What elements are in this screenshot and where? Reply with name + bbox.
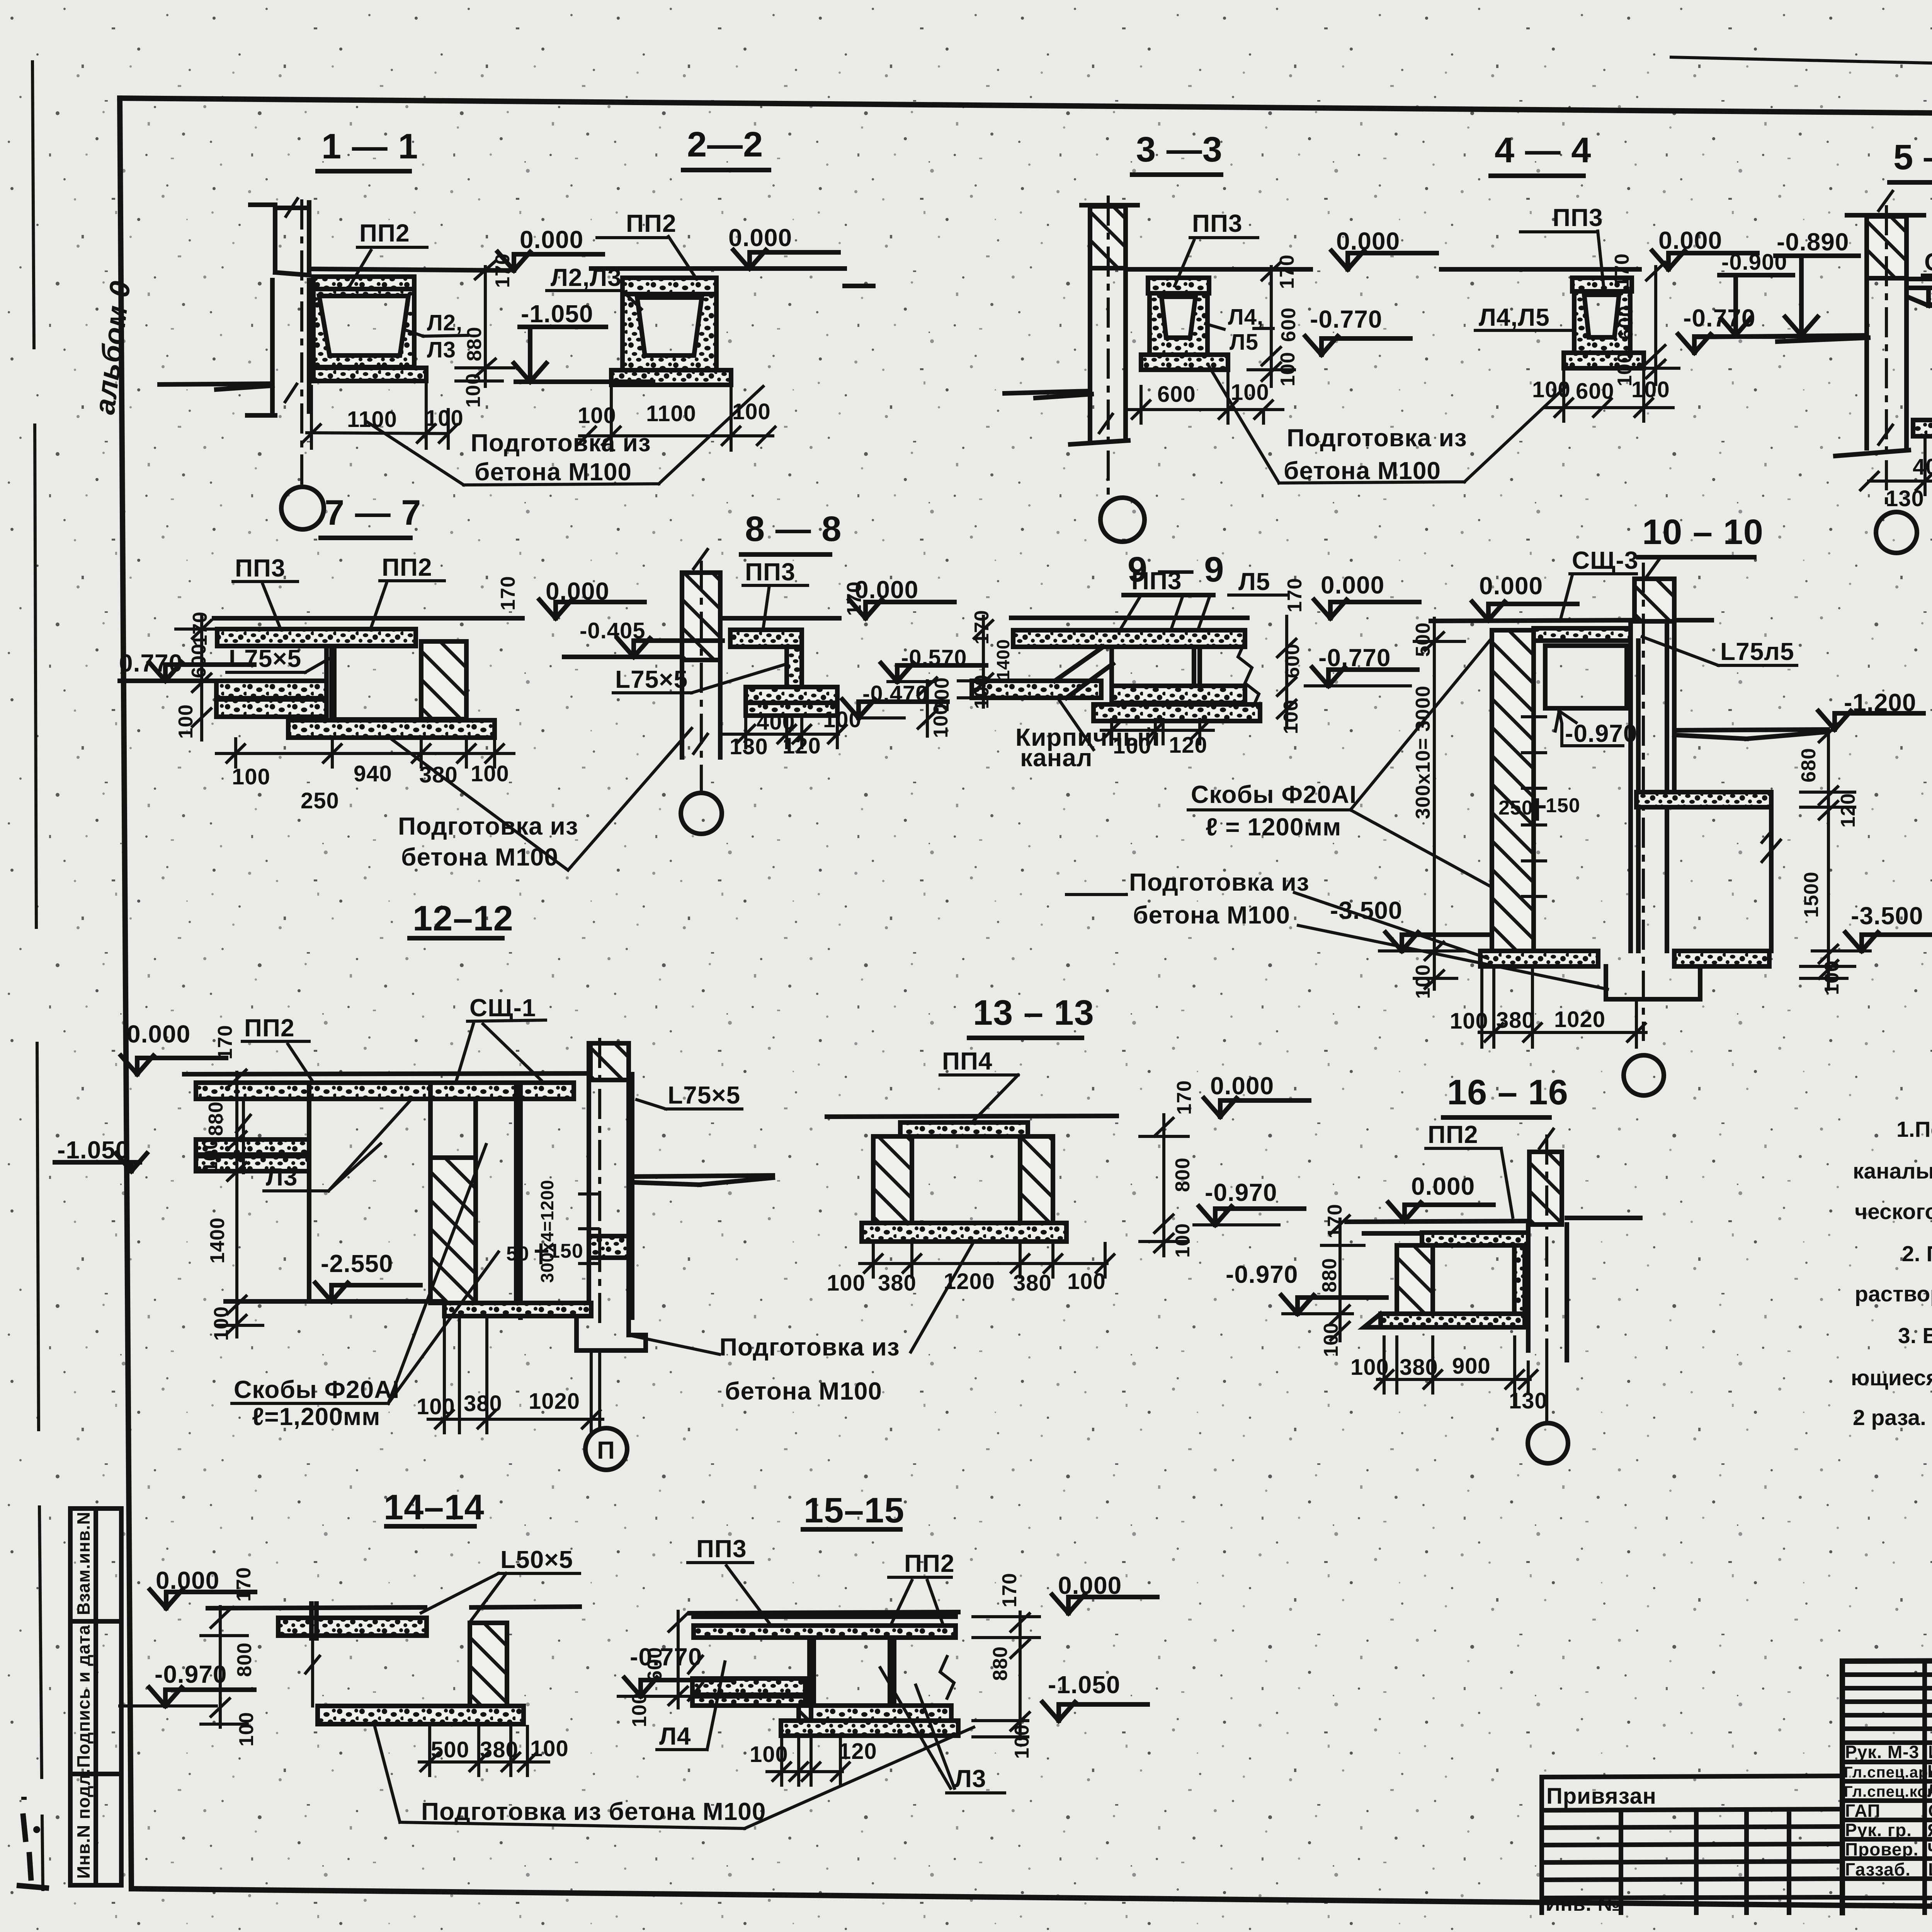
section 15-15 label L4 [657,1662,725,1750]
section 5-5 title underline [1889,180,1932,185]
section 12-12 axis to P circle [598,1350,601,1428]
section 10-10 right wall break [1762,832,1781,862]
svg-text:15–15: 15–15 [804,1491,905,1530]
svg-text:170: 170 [233,1567,255,1602]
svg-text:880: 880 [205,1101,227,1136]
section 4-4 bottom dim line [1546,370,1673,421]
svg-text:-0.770: -0.770 [1310,305,1382,333]
svg-text:100: 100 [530,1736,569,1761]
svg-text:Инв. №: Инв. № [1546,1893,1621,1915]
section 13-13 pier left hatched [873,1136,912,1223]
section 15-15 label PP3 [688,1535,774,1629]
svg-text:100: 100 [471,761,509,786]
section 16-16 cover slab [1422,1233,1528,1245]
section 15-15 label L3 [880,1668,1005,1793]
svg-text:380: 380 [464,1391,502,1416]
svg-text:Читхагадзе: Читхагадзе [1927,1839,1932,1859]
svg-text:Л3: Л3 [266,1163,298,1191]
svg-text:Скобы Ф20АІ: Скобы Ф20АІ [234,1376,400,1403]
bottom left corner marks [19,1816,46,1888]
section 16-16 label PP2 [1426,1121,1513,1217]
section 16-16 cover slab line [1364,1231,1422,1236]
svg-text:1100: 1100 [347,407,397,432]
section 16-16 bottom dim line [1375,1337,1537,1406]
sheet frame left border [120,98,131,1889]
svg-text:100: 100 [1172,1223,1194,1258]
svg-text:120: 120 [1169,733,1207,758]
section 7-7 hatched pier [421,641,466,719]
svg-text:170: 170 [214,1025,236,1060]
svg-text:Подготовка из: Подготовка из [471,429,651,457]
title block name rows [1842,1762,1932,1898]
section 16-16 axis to circle [1545,1352,1548,1423]
svg-text:100: 100 [1412,964,1434,999]
svg-text:Л4,Л5: Л4,Л5 [1479,303,1550,331]
section 7-7 channel floor slab upper [216,681,327,698]
section 10-10 upper wall break [1647,557,1661,577]
section 8-8 wall break top [694,549,707,569]
section 8-8 level mark 0.000 [849,576,954,618]
section 14-14 label L50x5 [421,1546,580,1621]
svg-text:1200: 1200 [944,1269,995,1294]
section 13-13 bedding slab [862,1223,1066,1242]
section 1-1 channel trough L2,L3 [313,289,414,367]
section 12-12 level mark -2.550 [315,1250,420,1301]
svg-text:8 — 8: 8 — 8 [745,509,842,549]
section 7-7 channel floor slab lower [216,699,327,717]
section 14-14 left break line [306,1638,320,1706]
section 12-12 wall lines right [476,1083,520,1318]
section 14-14 slab left lines [311,1604,316,1638]
section 9-9 cover slab long [1013,630,1245,647]
svg-text:0.000: 0.000 [127,1020,190,1048]
section 14-14 level mark 0.000 [150,1566,255,1608]
svg-text:3 —3: 3 —3 [1136,130,1223,169]
svg-text:ПП3: ПП3 [1192,209,1243,237]
svg-text:-0.890: -0.890 [1777,228,1849,256]
section 3-3 bottom dim line [1126,372,1283,423]
svg-text:ПП3: ПП3 [1553,204,1603,231]
section 10-10 wall tick marks [1522,717,1546,896]
section 16-16 wall lines below [1528,1152,1567,1360]
svg-text:П: П [597,1436,615,1464]
svg-text:ПП3: ПП3 [235,554,286,582]
section 9-9 cavity lines [1112,647,1200,686]
svg-text:Подготовка из бетона М100: Подготовка из бетона М100 [421,1798,766,1825]
section 10-10 title underline [1638,555,1754,560]
svg-text:Газзаб.: Газзаб. [1845,1859,1911,1879]
section 12-12 trough cavity lines [309,1099,430,1301]
svg-text:100: 100 [462,373,485,408]
svg-text:канал: канал [1020,744,1093,772]
section 8-8 cut circle [681,793,722,834]
section 10-10 label podgotovka [1066,868,1607,989]
svg-text:1020: 1020 [529,1389,580,1414]
section 7-7 cover slabs [217,629,416,646]
svg-text:-3.500: -3.500 [1330,896,1402,924]
section 12-12 channel slab lower [196,1156,309,1171]
scan edge line left [32,62,43,1889]
svg-text:Л5: Л5 [1238,568,1270,595]
section 14-14 left dim chain [201,1607,247,1727]
svg-text:800: 800 [233,1642,256,1677]
section 9-9 label PP3 [1121,567,1194,629]
section 15-15 label PP2 [889,1549,955,1629]
svg-text:Л3: Л3 [954,1765,986,1793]
section 13-13 label PP4 [940,1047,1018,1121]
section 8-8 slab post [787,647,802,687]
section 8-8 bottom dim line [723,717,846,748]
svg-text:380: 380 [1496,1008,1535,1033]
section 16-16 level mark -0.970 [1226,1260,1386,1314]
svg-text:ПП2: ПП2 [244,1014,295,1042]
svg-text:ПП2: ПП2 [904,1549,955,1577]
svg-text:Шсамч: Шсамч [1928,1859,1932,1879]
svg-text:170: 170 [1284,578,1306,612]
section 12-12 wall stipple block [589,1236,629,1258]
section 13-13 right dim chain [1140,1115,1188,1256]
title block signature columns [1925,1660,1932,1913]
section 15-15 bedding slab [781,1721,958,1736]
section 3-3 wall axis [1107,197,1110,495]
section 12-12 level line -2.550 [226,1299,444,1304]
svg-text:100: 100 [971,674,993,709]
section 7-7 title underline [321,536,410,540]
svg-text:1100: 1100 [646,401,696,426]
section 14-14 cover slab [278,1618,427,1636]
section 15-15 level mark -1.050 [973,1671,1148,1721]
svg-text:100: 100 [1011,1724,1033,1759]
svg-text:100: 100 [1631,377,1670,402]
section 13-13 level mark 0.000 [1204,1072,1309,1117]
section 10-10 bottom dim line [1479,968,1646,1047]
svg-text:250: 250 [1498,797,1533,819]
section 14-14 bedding slab [318,1706,524,1724]
svg-text:-0.970: -0.970 [1226,1260,1298,1288]
section 12-12 left break line [236,1099,250,1173]
svg-text:Подготовка из: Подготовка из [398,812,578,840]
section 10-10 channel floor slab [1636,792,1771,807]
section 15-15 hatch wedge [799,1706,811,1721]
section 12-12 cover slab [196,1083,574,1099]
section 7-7 floor line [214,616,522,621]
section 12-12 label L3 [264,1101,410,1191]
section 7-7 left dim chain [176,616,224,740]
section 5-5 floor line [1909,277,1932,281]
svg-text:600: 600 [644,1647,666,1682]
section 3-3 title underline [1132,172,1221,177]
svg-text:Саган: Саган [1928,1801,1932,1821]
section 15-15 title underline [803,1527,900,1532]
section 7-7 level mark 0.000 [539,577,645,618]
section 14-14 level mark -0.970 [120,1660,254,1706]
section 15-15 left break marks [689,1656,702,1700]
section 2-2 label PP2 [597,209,696,277]
svg-text:Ищенко: Ищенко [1928,1742,1932,1762]
section 10-10 bedding slab right [1674,951,1769,966]
section 8-8 bedding thin [746,703,837,716]
svg-text:100: 100 [1450,1009,1488,1034]
svg-text:400: 400 [1913,454,1932,480]
svg-text:100: 100 [199,1138,222,1173]
section 15-15 cover slab [694,1626,956,1638]
section 12-12 bedding slab [444,1303,591,1316]
svg-text:100: 100 [1350,1355,1389,1380]
svg-text:100: 100 [232,764,270,789]
section 9-9 left lower slab [972,681,1101,698]
section 13-13 title underline [969,1036,1082,1040]
svg-text:900: 900 [1452,1354,1491,1379]
section 12-12 title underline [410,936,502,940]
section 1-1 level mark 0.000 [498,226,603,270]
section 12-12 label L75x5 [637,1081,742,1109]
svg-text:500: 500 [1412,622,1434,657]
svg-text:150: 150 [1546,794,1580,817]
section 7-7 trough box [327,646,421,719]
svg-text:ℓ = 1200мм: ℓ = 1200мм [1206,813,1341,841]
svg-text:ПП3: ПП3 [696,1535,747,1563]
section 10-10 level mark -3.500 left [1330,896,1491,951]
svg-text:7 — 7: 7 — 7 [325,493,421,532]
section 12-12 ground line right [634,1175,773,1185]
svg-text:L50×5: L50×5 [500,1546,573,1573]
svg-text:100: 100 [417,1394,455,1419]
section 1-1 label L2 L3 [406,310,468,362]
section 10-10 channel right wall lines [1631,621,1674,951]
section 7-7 label PP3 [233,554,298,628]
svg-text:100: 100 [1277,352,1299,386]
section 16-16 cavity right strip [1514,1245,1525,1314]
section 10-10 floor line [1431,620,1712,621]
svg-text:0.000: 0.000 [1411,1172,1475,1200]
section 1-1 ground line left [160,384,272,389]
svg-text:Инв.N подл.: Инв.N подл. [73,1769,94,1879]
svg-text:100: 100 [750,1742,788,1767]
svg-text:170: 170 [998,1573,1021,1607]
section 7-7 label L75x5 [227,645,332,672]
svg-text:СЩ-1: СЩ-1 [469,994,536,1022]
svg-text:Штейнберг: Штейнберг [1927,1761,1932,1781]
section 1-1 column axis [300,201,303,485]
svg-text:380: 380 [1400,1355,1438,1380]
svg-text:2 раза.: 2 раза. [1853,1405,1926,1430]
svg-text:1400: 1400 [993,639,1013,680]
section 1-1 bedding slab [313,368,426,381]
svg-text:170: 170 [971,610,993,645]
section 8-8 wall lines below [682,660,720,757]
section 9-9 level mark -0.770 [1305,644,1417,686]
svg-text:170: 170 [843,581,866,616]
section 1-1 bottom dim line [303,384,457,448]
svg-text:100: 100 [732,399,771,424]
section 3-3 wall hatched [1090,206,1126,268]
svg-text:-1.050: -1.050 [1048,1671,1120,1699]
section 3-3 channel trough [1150,293,1207,355]
margin stamp cells [70,1509,121,1885]
section 10-10 left dim chain [1414,618,1464,989]
svg-text:120: 120 [838,1739,877,1764]
svg-text:0.000: 0.000 [520,226,583,253]
svg-text:-2.550: -2.550 [321,1250,393,1277]
section 5-5 cover slab PP3 [1929,288,1932,306]
section 10-10 level mark -1.200 [1818,689,1923,730]
section 5-5 cut circle [1876,512,1917,553]
section 3-3 bedding slab [1141,355,1228,370]
section 16-16 bottom slab left wedge [1364,1314,1381,1327]
svg-text:100: 100 [1231,380,1269,405]
svg-text:380: 380 [480,1737,519,1762]
svg-text:-0.900: -0.900 [1721,250,1787,275]
section 4-4 cover slab PP3 [1572,278,1632,291]
section 8-8 level mark -0.405 [564,618,723,657]
section 2-2 floor line [591,269,873,286]
section 5-5 label SCH-2 [1922,248,1932,276]
section 14-14 floor line [208,1607,580,1608]
svg-text:130: 130 [1886,486,1924,511]
svg-text:100: 100 [1532,377,1571,402]
section 12-12 wall hatch top [590,1043,629,1080]
svg-text:Л5: Л5 [1230,330,1259,355]
section 8-8 label L75x5 [613,665,784,693]
sheet frame top overbar line [1671,57,1932,80]
section 7-7 label podgotovka [391,728,692,871]
section 8-8 level mark -0.570 [881,645,986,682]
section 1-1 label PP2 [350,219,427,286]
svg-text:растворе марки 25.: растворе марки 25. [1855,1282,1932,1306]
section 10-10 label SCH-3 [1561,546,1638,617]
svg-text:600: 600 [1615,305,1637,340]
svg-text:Гл.спец.арх: Гл.спец.арх [1844,1764,1932,1781]
section 9-9 level mark 0.000 [1314,571,1419,618]
svg-text:100: 100 [425,406,464,431]
section 16-16 wall axis [1545,1136,1548,1352]
svg-text:100: 100 [827,1270,866,1296]
svg-text:-1.050: -1.050 [521,300,593,328]
section 16-16 title underline [1443,1115,1549,1120]
svg-text:50: 50 [506,1243,529,1265]
section 1-1 floor line 0.000 [311,269,508,270]
section 16-16 floor line [1347,1218,1640,1222]
section 15-15 bottom dim line [767,1739,849,1785]
section 9-9 right break [1238,641,1259,709]
section 8-8 lower slab [746,687,837,703]
section 10-10 cover slab right [1534,628,1631,641]
section 9-9 left dim chain [958,616,1005,707]
section 15-15 right dim chain [973,1612,1039,1739]
svg-text:130: 130 [1509,1388,1548,1413]
section 5-5 ground line left [1698,335,1868,342]
section 2-2 level mark -1.050 [514,300,653,382]
svg-text:100: 100 [578,403,616,428]
svg-text:12–12: 12–12 [413,899,514,938]
section 1-1 title underline [318,169,410,173]
section 4-4 label L4 L5 [1475,303,1575,331]
section 12-12 P circle [585,1428,627,1470]
section 5-5 bedding slab [1913,420,1932,436]
section 13-13 level mark -0.970 [1194,1179,1304,1225]
section 12-12 label PP2 [242,1014,313,1082]
section 8-8 right dim chain [918,678,937,736]
section 12-12 floor line [184,1073,585,1074]
section 2-2 channel trough [622,294,716,370]
svg-text:ПП2: ПП2 [359,219,410,247]
section 15-15 level mark 0.000 [1052,1571,1157,1613]
section 3-3 level mark 0.000 [1332,227,1437,269]
svg-text:100: 100 [1320,1322,1342,1357]
section 5-5 level mark -0.900 [1719,250,1793,335]
svg-text:бетона М100: бетона М100 [725,1377,882,1405]
title block role texts [1844,1742,1932,1879]
svg-text:170: 170 [497,576,519,611]
svg-text:ПП2: ПП2 [626,209,677,237]
section 15-15 cavity joint lines [810,1638,894,1706]
svg-text:3. Все поверхности каналов: 3. Все поверхности каналов и приямков, с… [1898,1323,1932,1348]
svg-text:Гл.спец.кон: Гл.спец.кон [1844,1783,1932,1800]
section 13-13 cover slab [900,1122,1028,1136]
sheet frame bottom border [131,1889,1932,1913]
section 12-12 channel slab upper [196,1139,309,1155]
section 3-3 wall lines below [1070,268,1128,444]
section 10-10 trough cavity box [1545,646,1627,708]
section 1-1 wall column [247,202,309,415]
svg-text:бетона М100: бетона М100 [474,458,632,486]
svg-text:380: 380 [878,1270,917,1296]
svg-text:16 – 16: 16 – 16 [1447,1073,1568,1112]
section 3-3 ground line left [1005,391,1092,398]
section 15-15 dim chain left [669,1611,687,1708]
section 2-2 label L2 L3 [547,264,641,309]
svg-text:-0.970: -0.970 [155,1660,227,1688]
svg-text:100: 100 [210,1306,233,1341]
svg-text:1400: 1400 [206,1217,229,1264]
svg-text:600: 600 [1281,643,1304,678]
svg-text:Рук. М-3: Рук. М-3 [1845,1742,1919,1762]
svg-text:380: 380 [1013,1270,1052,1296]
section 12-12 building wall lines [589,1043,632,1318]
section 8-8 level mark -0.470 [842,681,947,718]
section 15-15 level mark -0.770 [618,1643,730,1696]
section 5-5 wall axis [1885,207,1888,510]
svg-text:1.Перепады по высоте, повороты: 1.Перепады по высоте, повороты каналов, … [1896,1117,1932,1142]
svg-text:400: 400 [757,709,795,735]
section 16-16 cut circle [1528,1423,1568,1463]
section 2-2 bottom dim line [578,386,775,450]
section 12-12 left dim chain [216,1070,263,1337]
svg-text:-3.500: -3.500 [1851,902,1923,930]
svg-text:600: 600 [188,643,210,678]
section 12-12 slab joints [309,1083,430,1099]
section 3-3 label PP3 [1175,209,1258,286]
title block outer box [1842,1659,1932,1913]
section 12-12 scale marks 50 150 [506,1240,583,1265]
section 12-12 wall axis [598,1039,601,1325]
section 16-16 level mark 0.000 [1388,1172,1493,1221]
section 9-9 bedding slab [1094,704,1260,721]
section 2-2 cover slab PP2 [622,278,716,294]
section 2-2 level mark 0.000 [728,224,838,269]
section 9-9 title underline [1124,593,1213,597]
svg-text:1 — 1: 1 — 1 [321,127,418,166]
section 13-13 floor line [827,1116,1117,1117]
svg-text:170: 170 [1611,253,1633,288]
svg-text:120: 120 [1837,793,1859,828]
svg-text:ПП4: ПП4 [942,1047,993,1075]
svg-text:100: 100 [235,1712,258,1747]
svg-text:100: 100 [823,707,862,732]
section 10-10 label L75x5 [1642,637,1797,665]
title block name texts [1927,1742,1932,1879]
svg-text:L75л5: L75л5 [1720,638,1794,665]
